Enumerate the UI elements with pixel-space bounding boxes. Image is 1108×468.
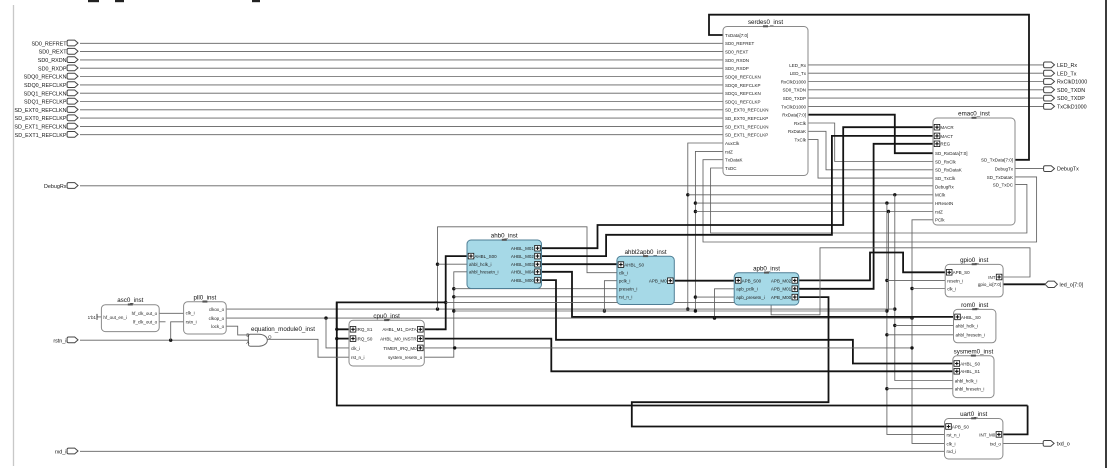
svg-text:DebugTx: DebugTx	[1057, 167, 1079, 173]
svg-text:APB_M0: APB_M0	[649, 279, 667, 284]
svg-text:cpu0_inst: cpu0_inst	[373, 313, 400, 320]
svg-text:clk_i: clk_i	[186, 310, 195, 315]
svg-text:1'b1: 1'b1	[88, 315, 97, 320]
svg-text:DebugRx: DebugRx	[935, 184, 955, 189]
svg-text:DebugRx: DebugRx	[44, 184, 67, 190]
output port DebugTx	[1044, 166, 1055, 172]
svg-text:RxDataK: RxDataK	[788, 129, 806, 134]
svg-text:IRQ_S1: IRQ_S1	[356, 327, 373, 332]
svg-text:AHBL_S0: AHBL_S0	[961, 315, 981, 320]
svg-text:equation_module0_inst: equation_module0_inst	[251, 326, 315, 333]
wire constant to asc0 hf_out_en_i	[97, 316, 101, 318]
svg-text:SDQ1_REFCLKN: SDQ1_REFCLKN	[24, 91, 67, 97]
junction resetn backbone start	[452, 309, 455, 312]
wire SD_EXT1_REFCLKN to serdes0	[80, 125, 723, 127]
cropped text remnants top edge	[88, 0, 99, 2]
wire ahb0 AHBL_M03 to ahbl2apb0 AHBL_S0 bus	[542, 263, 617, 265]
wire irq bus to cpu0 IRQ_S0	[337, 338, 349, 340]
wire serdes0 RxClkD1000 to port	[808, 81, 1045, 83]
svg-text:APB_M00: APB_M00	[771, 295, 792, 300]
svg-text:AHBL_M00: AHBL_M00	[511, 278, 535, 283]
wire emac0 SD_TxDC to serdes0 TxDC	[711, 168, 1027, 233]
wire SD0_RXDP to serdes0	[80, 67, 723, 69]
output port SD0_TXDN	[1044, 87, 1055, 93]
svg-text:SD_TxDC: SD_TxDC	[993, 182, 1014, 187]
svg-text:ahbl_hresetn_i: ahbl_hresetn_i	[956, 333, 986, 338]
junction rstZ branch	[887, 210, 890, 213]
junction gpio resetn branch	[885, 279, 888, 282]
block pll0_inst	[184, 294, 227, 334]
junction gpio clk branch	[910, 287, 913, 290]
svg-text:AHBL_S0: AHBL_S0	[624, 263, 644, 268]
block emac0_inst	[933, 111, 1015, 226]
input port SD0_REFRET	[67, 40, 78, 46]
junction clkox to ahb trunk	[436, 307, 439, 310]
wire asc0 lf_clk_out_o stub	[159, 321, 165, 323]
wire cpu0 AHBL_M1_DATA to ahb0 AHBL_S00 bus	[424, 256, 467, 329]
svg-text:clk_i: clk_i	[351, 346, 360, 351]
wire clkop to cpu0 clk_i	[326, 318, 349, 348]
wire reset to rom0 ahbl_hresetn_i	[887, 334, 954, 336]
svg-text:gpio0_inst: gpio0_inst	[960, 257, 988, 264]
wire SD_EXT0_REFCLKP to serdes0	[80, 117, 723, 119]
svg-text:pclk_i: pclk_i	[619, 279, 631, 284]
block sysmem0_inst	[953, 348, 994, 397]
output port led_o[7:0]	[1045, 281, 1057, 287]
svg-text:SD0_RXDP: SD0_RXDP	[725, 66, 749, 71]
svg-text:INT: INT	[988, 275, 996, 280]
junction clkop to cpu clk	[324, 316, 327, 319]
junction sysmem resetn branch	[885, 387, 888, 390]
svg-text:clkop_o: clkop_o	[209, 316, 225, 321]
svg-text:TxClkD1000: TxClkD1000	[781, 104, 806, 109]
input port DebugRx	[67, 183, 78, 189]
wire pll0 clkop_o distribution	[226, 317, 912, 319]
svg-text:SD0_RXDP: SD0_RXDP	[38, 66, 67, 72]
svg-text:SD_EXT1_REFCLKP: SD_EXT1_REFCLKP	[725, 133, 768, 138]
wire equation O to cpu0 rst_n_i	[267, 339, 349, 357]
junction timer irq right	[910, 346, 913, 349]
svg-text:serdes0_inst: serdes0_inst	[748, 19, 783, 26]
svg-text:LED_Rx: LED_Rx	[1057, 63, 1077, 69]
wire SDQ0_REFCLKN to serdes0	[80, 76, 723, 78]
wire asc0 hf_clk_out_o to pll0 clk_i	[159, 312, 183, 314]
wire reset trunk to serdes0 rstZ	[695, 151, 723, 311]
wire serdes0 TxClk to emac0 SD_TxClk	[808, 140, 933, 179]
wire reset to gpio0 resetn_i	[887, 279, 945, 281]
left sheet border line	[13, 5, 15, 466]
svg-text:SD_EXT0_REFCLKP: SD_EXT0_REFCLKP	[15, 116, 67, 122]
block gpio0_inst	[945, 257, 1003, 297]
svg-text:clkox_o: clkox_o	[209, 307, 225, 312]
svg-text:SDQ0_REFCLKN: SDQ0_REFCLKN	[725, 74, 761, 79]
wire to ahbl2apb0 pclk_i	[604, 281, 617, 311]
wire MClk to emac0	[688, 194, 933, 196]
gate equation_module0_inst	[246, 326, 315, 346]
input port SDQ1_REFCLKN	[67, 90, 78, 96]
svg-text:rxd_i: rxd_i	[947, 449, 957, 454]
svg-text:rstn_i: rstn_i	[53, 338, 66, 344]
block rom0_inst	[954, 302, 996, 343]
wire clk trunk right side to sysmem0 ahbl_hclk_i	[895, 195, 953, 381]
svg-text:hf_clk_out_o: hf_clk_out_o	[132, 311, 158, 316]
svg-text:rst_n_i: rst_n_i	[619, 295, 633, 300]
wire apb0 APB_M00 to uart0 APB_S0 bus	[632, 297, 945, 426]
wire DebugRx to emac0 DebugRx	[80, 185, 933, 187]
junction rom resetn branch	[885, 333, 888, 336]
svg-text:MACR: MACR	[940, 125, 954, 130]
svg-text:clk_i: clk_i	[947, 441, 956, 446]
wire resetn to ahbl2apb0 rst_n_i	[454, 296, 617, 298]
block apb0_inst	[734, 265, 799, 305]
junction resetn to ahbl2apb rstn	[452, 295, 455, 298]
svg-text:uart0_inst: uart0_inst	[960, 411, 987, 418]
svg-text:SD_RxClk: SD_RxClk	[935, 159, 957, 164]
wire pll0 lock_o to equation B	[226, 326, 250, 335]
svg-text:lock_o: lock_o	[211, 324, 225, 329]
block uart0_inst	[945, 411, 1003, 459]
wire SDQ1_REFCLKN to serdes0	[80, 92, 723, 94]
output port TxClkD1000	[1044, 104, 1055, 110]
input port rstn_i	[67, 337, 78, 343]
wire ahb0 AHBL_M04 to rom0 AHBL_S0 bus	[542, 272, 954, 317]
svg-text:MClk: MClk	[935, 193, 946, 198]
input port SD_EXT1_REFCLKN	[67, 123, 78, 129]
svg-text:SDQ1_REFCLKN: SDQ1_REFCLKN	[725, 91, 761, 96]
svg-text:PClk: PClk	[935, 218, 945, 223]
wire cpu0 TIMER_IRQ_M0	[424, 347, 912, 349]
svg-text:SD_EXT0_REFCLKN: SD_EXT0_REFCLKN	[725, 108, 769, 113]
wire SD0_REFRET to serdes0	[80, 42, 723, 44]
svg-text:apb_presetn_i: apb_presetn_i	[736, 295, 765, 300]
junction MClk tap	[686, 193, 689, 196]
svg-text:RxClkD1000: RxClkD1000	[1057, 80, 1087, 86]
junction reset right trunk top	[885, 201, 888, 204]
junction resetn to ahbl2apb presetn	[452, 287, 455, 290]
wire SD0_RXDN to serdes0	[80, 59, 723, 61]
junction HResetN tap	[694, 201, 697, 204]
svg-text:SD_EXT0_REFCLKP: SD_EXT0_REFCLKP	[725, 116, 768, 121]
block cpu0_inst	[349, 313, 424, 366]
svg-text:HResetN: HResetN	[935, 201, 953, 206]
svg-text:apb0_inst: apb0_inst	[753, 265, 780, 272]
svg-text:AHBL_S1: AHBL_S1	[960, 369, 980, 374]
wire rstZ to emac0	[695, 211, 933, 213]
svg-text:SD0_RXDN: SD0_RXDN	[725, 58, 749, 63]
svg-text:LED_Rx: LED_Rx	[789, 63, 807, 68]
junction clkop to apb pclk	[713, 316, 716, 319]
svg-text:rxd_i: rxd_i	[55, 449, 67, 455]
svg-text:TxDataK: TxDataK	[725, 158, 743, 163]
block ahb0_inst	[467, 233, 542, 289]
input port SD0_RXDN	[67, 57, 78, 63]
svg-text:RxClkD1000: RxClkD1000	[781, 79, 807, 84]
wire resetn to apb0 apb_presetn_i	[695, 296, 734, 298]
svg-text:AHBL_S0: AHBL_S0	[960, 361, 980, 366]
svg-text:DebugTx: DebugTx	[995, 167, 1014, 172]
wire HResetN to emac0	[695, 202, 933, 204]
svg-text:ahbl_hclk_i: ahbl_hclk_i	[955, 378, 978, 383]
wire serdes0 SD0_TXDN to port	[808, 89, 1045, 91]
wire pll0 clkox_o distribution	[226, 308, 895, 310]
svg-text:SD0_REXT: SD0_REXT	[39, 50, 68, 56]
svg-text:apb_pclk_i: apb_pclk_i	[736, 287, 758, 292]
svg-text:AHBL_M04: AHBL_M04	[511, 270, 535, 275]
wire rstZ trunk down	[888, 212, 890, 312]
wire emac0 SD_TxDataK to serdes0 TxDataK	[703, 160, 1037, 242]
svg-text:RxClk: RxClk	[794, 121, 807, 126]
wire apb0 APB_M01 to emac0 REG bus	[799, 144, 933, 289]
wire cpu0 system_resetn_o to ahb0 ahbl_hresetn_i	[424, 272, 467, 357]
svg-text:MACT: MACT	[940, 134, 953, 139]
svg-text:SD_TxClk: SD_TxClk	[935, 176, 956, 181]
wire ahbl2apb0 APB_M0 to apb0 APB_S00 bus	[674, 280, 734, 282]
junction reset trunk on backbone	[694, 309, 697, 312]
wire pclk trunk: emac0 PClk down to uart0 clk_i	[912, 220, 945, 444]
wire emac0 DebugTx to port	[1015, 168, 1045, 170]
svg-text:AHBL_M1_DATA: AHBL_M1_DATA	[382, 327, 416, 332]
wire serdes0 RxClk to emac0 SD_RxClk	[808, 123, 933, 162]
svg-text:A: A	[246, 340, 249, 345]
svg-text:led_o[7:0]: led_o[7:0]	[1060, 282, 1084, 288]
junction resetn to apb presetn	[694, 295, 697, 298]
svg-text:presetn_i: presetn_i	[619, 287, 638, 292]
svg-text:SDQ0_REFCLKP: SDQ0_REFCLKP	[24, 83, 67, 89]
svg-text:TxDC: TxDC	[725, 166, 737, 171]
wire gpio0 gpio_io to led_o port	[1003, 283, 1045, 285]
wire irq bottom loop	[337, 302, 1028, 405]
wire clk to gpio0 clk_i	[912, 288, 945, 290]
junction clkop right trunk	[910, 316, 913, 319]
svg-text:txd_o: txd_o	[1057, 442, 1070, 448]
input port SDQ1_REFCLKP	[67, 98, 78, 104]
wire serdes0 LED_Rx to port	[808, 64, 1045, 66]
input port SDQ0_REFCLKN	[67, 73, 78, 79]
junction rstn_i branch	[169, 339, 172, 342]
svg-text:asc0_inst: asc0_inst	[117, 297, 143, 304]
svg-text:AHBL_M01: AHBL_M01	[511, 246, 535, 251]
wire rxd_i to uart0 rxd_i	[80, 450, 945, 452]
wire irq loop to cpu0 IRQ_S1	[337, 302, 446, 329]
wire serdes0 SD0_TXDP to port	[808, 97, 1045, 99]
svg-text:rom0_inst: rom0_inst	[961, 302, 988, 309]
svg-text:SD0_REXT: SD0_REXT	[725, 50, 749, 55]
junction irq vertical 2	[335, 337, 338, 340]
junction ahb hclk branch	[436, 263, 439, 266]
wire hclk wrap over ahb0 to ahbl2apb0 clk_i	[438, 227, 617, 273]
svg-text:SD0_RXDN: SD0_RXDN	[38, 58, 67, 64]
svg-text:SD_TxDataK: SD_TxDataK	[987, 175, 1013, 180]
wire SD_EXT1_REFCLKP to serdes0	[80, 134, 723, 136]
output port LED_Rx	[1044, 62, 1055, 68]
wire uart0 txd_o to port	[1003, 442, 1045, 444]
block serdes0_inst	[723, 19, 808, 176]
svg-text:TIMER_IRQ_M0: TIMER_IRQ_M0	[383, 346, 417, 351]
svg-text:resetn_i: resetn_i	[947, 278, 963, 283]
svg-text:gpio_io[7:0]: gpio_io[7:0]	[978, 282, 1001, 287]
svg-text:SDQ1_REFCLKP: SDQ1_REFCLKP	[24, 100, 67, 106]
junction irq vertical	[335, 328, 338, 331]
wire SDQ0_REFCLKP to serdes0	[80, 84, 723, 86]
wire clkox trunk to serdes0 AuxClk	[688, 143, 723, 309]
output port SD0_TXDP	[1044, 95, 1055, 101]
wire resetn to ahbl2apb0 presetn_i	[454, 288, 617, 290]
svg-text:SD0_TXDP: SD0_TXDP	[1057, 96, 1085, 102]
svg-text:LED_Tx: LED_Tx	[790, 71, 807, 76]
wire ahb clk trunk	[437, 227, 439, 310]
svg-text:rstn_i: rstn_i	[186, 320, 197, 325]
svg-text:INT_M0: INT_M0	[979, 432, 996, 437]
svg-text:REG: REG	[940, 142, 950, 147]
wire reset trunk right side to uart0 rst_n_i	[887, 203, 945, 434]
constant 1'b1	[96, 314, 98, 320]
input port SD0_REXT	[67, 48, 78, 54]
wire rstn_i to equation A	[80, 339, 250, 341]
input port SD_EXT1_REFCLKP	[67, 132, 78, 138]
svg-text:ahbl_hresetn_i: ahbl_hresetn_i	[469, 270, 499, 275]
svg-text:SDQ1_REFCLKP: SDQ1_REFCLKP	[725, 99, 761, 104]
wire ahb0 AHBL_M01 to emac0 MACR bus	[542, 127, 934, 248]
svg-text:SD0_TXDP: SD0_TXDP	[783, 96, 806, 101]
svg-text:AHBL_S00: AHBL_S00	[474, 254, 497, 259]
svg-text:system_resetn_o: system_resetn_o	[388, 355, 423, 360]
input port SD_EXT0_REFCLKP	[67, 115, 78, 121]
junction rstZ tap	[694, 210, 697, 213]
wire clkop to apb0 apb_pclk_i	[715, 289, 735, 318]
wire serdes0 LED_Tx to port	[808, 72, 1045, 74]
wire SD0_REXT to serdes0	[80, 51, 723, 53]
svg-text:APB_S0: APB_S0	[952, 424, 970, 429]
wire serdes0 RxData to emac0 SD_RxData bus	[808, 115, 933, 154]
svg-text:ahb0_inst: ahb0_inst	[491, 233, 518, 240]
svg-text:B: B	[246, 332, 249, 337]
svg-text:SD_TxData[7:0]: SD_TxData[7:0]	[981, 158, 1013, 163]
wire serdes0 TxClkD1000 to port	[808, 105, 1045, 107]
junction timer irq	[453, 346, 456, 349]
svg-text:SD0_REFRET: SD0_REFRET	[725, 41, 755, 46]
svg-text:rstZ: rstZ	[725, 149, 733, 154]
svg-text:TxClkD1000: TxClkD1000	[1057, 105, 1087, 111]
svg-text:ahbl_hclk_i: ahbl_hclk_i	[956, 323, 979, 328]
svg-text:AHBL_M03: AHBL_M03	[511, 262, 535, 267]
wire SDQ1_REFCLKP to serdes0	[80, 101, 723, 103]
svg-text:APB_S00: APB_S00	[742, 278, 762, 283]
wire clk to ahb0 ahbl_hclk_i	[438, 263, 468, 265]
junction irq loop	[444, 301, 447, 304]
junction reset backbone	[885, 309, 888, 312]
svg-text:IRQ_S0: IRQ_S0	[356, 337, 373, 342]
right window border line	[1105, 0, 1107, 468]
junction clk trunk top	[893, 193, 896, 196]
svg-text:APB_S0: APB_S0	[953, 270, 971, 275]
svg-text:hf_out_en_i: hf_out_en_i	[103, 315, 127, 320]
wire SD_EXT0_REFCLKN to serdes0	[80, 109, 723, 111]
svg-text:SD_EXT1_REFCLKN: SD_EXT1_REFCLKN	[725, 124, 769, 129]
wire reset to sysmem0 ahbl_hresetn_i	[887, 388, 953, 390]
svg-text:ahbl_hresetn_i: ahbl_hresetn_i	[955, 387, 985, 392]
wire resetn backbone	[454, 310, 887, 312]
wire emac0 SD_TxData to serdes0 TxData (top feedback bus)	[709, 15, 1029, 160]
input port SDQ0_REFCLKP	[67, 82, 78, 88]
wire rstn_i to pll0 rstn_i	[171, 322, 184, 340]
wire gpio0 INT to cpu0 IRQ_S1	[446, 248, 1030, 315]
svg-text:sysmem0_inst: sysmem0_inst	[954, 348, 994, 355]
output port txd_o	[1043, 441, 1054, 447]
svg-text:SD_EXT1_REFCLKN: SD_EXT1_REFCLKN	[14, 125, 66, 131]
block asc0_inst	[101, 297, 159, 331]
junction backbone to ahbl2apb pclk	[603, 309, 606, 312]
input port SD_EXT0_REFCLKN	[67, 107, 78, 113]
svg-text:SD0_TXDN: SD0_TXDN	[782, 88, 806, 93]
svg-text:LED_Tx: LED_Tx	[1057, 71, 1077, 77]
block ahbl2apb0_inst	[617, 249, 674, 305]
input port rxd_i	[67, 448, 78, 454]
wire cpu0 AHBL_M0_INSTR to sysmem0 AHBL_S1 bus	[424, 339, 953, 372]
svg-text:O: O	[268, 335, 272, 340]
wire serdes0 RxDataK to emac0 SD_RxDataK	[808, 131, 933, 170]
wire ahb0 AHBL_M02 to emac0 MACT bus	[542, 136, 934, 256]
svg-text:APB_M01: APB_M01	[771, 287, 792, 292]
svg-text:SD_RxData[7:0]: SD_RxData[7:0]	[935, 151, 968, 156]
svg-text:txd_o: txd_o	[990, 441, 1002, 446]
svg-text:clk_i: clk_i	[619, 271, 628, 276]
junction clkox tap	[686, 307, 689, 310]
output port LED_Tx	[1044, 70, 1055, 76]
wire apb0 APB_M02 to gpio0 APB_S0 bus	[799, 253, 945, 281]
wire ahb0 AHBL_M00 to sysmem0 AHBL_S0 bus	[542, 280, 953, 363]
svg-text:SDQ0_REFCLKN: SDQ0_REFCLKN	[24, 75, 67, 81]
svg-text:AuxClk: AuxClk	[725, 141, 740, 146]
junction clkox meets right trunk	[893, 307, 896, 310]
svg-text:SD_EXT1_REFCLKP: SD_EXT1_REFCLKP	[15, 133, 67, 139]
svg-text:pll0_inst: pll0_inst	[194, 294, 217, 301]
svg-text:ahbl2apb0_inst: ahbl2apb0_inst	[625, 249, 667, 256]
svg-text:TxData[7:0]: TxData[7:0]	[725, 33, 748, 38]
svg-text:emac0_inst: emac0_inst	[958, 111, 990, 118]
svg-text:clk_i: clk_i	[947, 286, 956, 291]
svg-text:TxClk: TxClk	[795, 138, 807, 143]
svg-text:ahbl_hclk_i: ahbl_hclk_i	[469, 262, 492, 267]
svg-text:SDQ0_REFCLKP: SDQ0_REFCLKP	[725, 83, 761, 88]
input port SD0_RXDP	[67, 65, 78, 71]
svg-text:SD_EXT0_REFCLKN: SD_EXT0_REFCLKN	[14, 108, 66, 114]
svg-text:RxData[7:0]: RxData[7:0]	[782, 113, 806, 118]
svg-text:APB_M02: APB_M02	[771, 278, 792, 283]
svg-text:SD0_TXDN: SD0_TXDN	[1057, 88, 1085, 94]
junction rom clk branch	[893, 324, 896, 327]
svg-text:rstZ: rstZ	[935, 209, 943, 214]
svg-text:SD0_REFRET: SD0_REFRET	[31, 41, 67, 47]
svg-text:rst_n_i: rst_n_i	[947, 432, 961, 437]
svg-text:AHBL_M0_INSTR: AHBL_M0_INSTR	[380, 337, 417, 342]
output port RxClkD1000	[1044, 79, 1055, 85]
svg-text:rst_n_i: rst_n_i	[351, 355, 365, 360]
svg-text:SD_RxDataK: SD_RxDataK	[935, 168, 962, 173]
svg-text:lf_clk_out_o: lf_clk_out_o	[133, 320, 158, 325]
wire clk to rom0 ahbl_hclk_i	[895, 324, 954, 326]
wire uart0 INT_M0 to irq bottom loop	[1003, 406, 1028, 435]
svg-text:AHBL_M02: AHBL_M02	[511, 254, 535, 259]
